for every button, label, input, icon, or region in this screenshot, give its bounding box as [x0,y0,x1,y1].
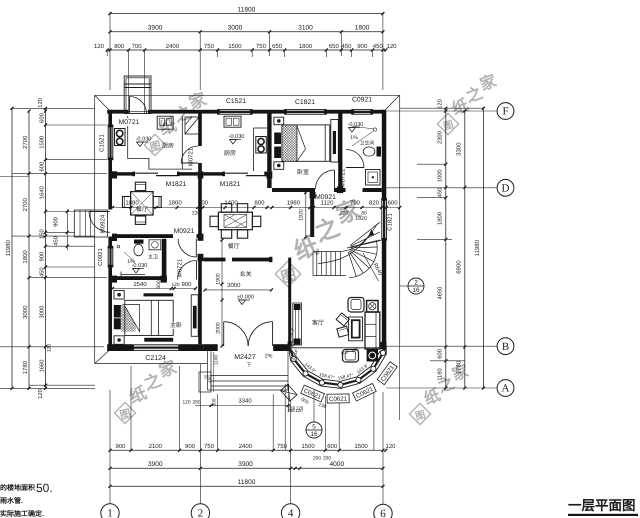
svg-text:1500: 1500 [228,43,242,50]
svg-text:900: 900 [53,217,60,227]
door M0921 bedroom [334,170,336,189]
svg-text:200: 200 [313,456,321,462]
svg-text:16: 16 [412,287,420,294]
svg-text:2300: 2300 [437,131,444,144]
svg-text:3000: 3000 [227,282,241,289]
vertical dim 1920 left of stair [305,193,307,238]
svg-text:4650: 4650 [437,287,444,300]
svg-text:1500: 1500 [301,443,315,450]
svg-text:2700: 2700 [22,135,29,149]
svg-text:1780: 1780 [22,360,29,374]
svg-text:6900: 6900 [456,260,463,274]
svg-text:D: D [502,183,510,195]
inner wall kitchen2-bedroom [267,114,271,172]
svg-text:650: 650 [329,43,340,50]
bathroom toilet [363,147,375,156]
inner wall entry top [203,258,225,262]
svg-text:800: 800 [254,200,265,207]
stair radius leader R640 [363,253,379,281]
porch vertical small dims [213,352,215,392]
section mark 5/16 [313,390,315,422]
svg-text:1660: 1660 [39,360,46,373]
room label master bedroom [172,322,179,329]
bedroom nightstand top [274,117,284,125]
window C0921 left [108,246,113,267]
svg-text:700: 700 [350,200,361,207]
svg-text:120: 120 [386,43,397,50]
stair walk line arrow [318,230,372,264]
svg-text:200: 200 [323,456,331,462]
label M0721 kitchen1 [119,118,140,126]
dining1 chairs [135,182,145,190]
spiral stair upper treads [351,240,380,247]
svg-text:客厅: 客厅 [312,319,324,327]
svg-text:1800: 1800 [355,25,370,32]
living room armchair 1 [336,313,349,326]
top dimension row total 11800 [110,13,383,15]
svg-text:300: 300 [212,398,218,406]
svg-text:1500: 1500 [354,443,368,450]
kitchen1 stove [115,129,126,146]
door M0721 kitchen1 top [129,97,131,114]
svg-text:主卧: 主卧 [170,321,182,329]
dining1 table [131,192,154,215]
svg-text:1400: 1400 [224,200,238,207]
svg-text:450: 450 [39,267,46,277]
bottom dimension row fine [110,449,383,451]
living room sofa main [365,312,380,349]
svg-text:餐厅: 餐厅 [228,242,240,250]
left wall segments [108,110,112,125]
svg-text:1800: 1800 [22,250,29,264]
inner wall master bath right [162,239,167,276]
svg-text:900: 900 [115,443,126,450]
inner wall kitchen divider x=200 [198,114,202,147]
svg-text:450: 450 [437,188,444,198]
svg-text:220: 220 [192,211,201,217]
svg-text:750: 750 [204,443,215,450]
internal dimension string y=207.5 [112,207,400,209]
svg-text:下: 下 [246,363,251,369]
kitchen1 counter [128,116,192,169]
svg-text:3000: 3000 [39,306,46,319]
bedroom nightstand bottom [274,162,284,170]
axis bubble F [497,103,514,120]
axis bubble B [497,338,514,355]
living room west wall [288,258,291,347]
svg-text:M1821: M1821 [220,181,241,188]
svg-text:C1821: C1821 [295,99,315,106]
spiral stair fan treads [348,252,356,277]
svg-text:900: 900 [39,252,46,262]
living room TV cabinet [293,303,302,345]
bottom wall master bedroom [107,344,132,351]
living room armchair 2 [337,326,349,337]
dining2 table [218,212,252,230]
left dimension column groups [28,111,30,388]
svg-text:16: 16 [310,431,318,438]
inner wall bedroom-bath bottom [272,188,315,192]
level mark bathroom [349,128,356,133]
bedroom wardrobe [331,120,339,163]
svg-text:C0921: C0921 [97,248,104,266]
svg-text:的楼地面积: 的楼地面积 [0,483,35,492]
door M2427 entry double [223,322,225,346]
svg-text:C2124: C2124 [145,355,166,362]
svg-text:2700: 2700 [22,197,29,211]
svg-text:1920: 1920 [355,216,367,222]
pier kitchen2-bedroom [267,171,273,178]
svg-text:2: 2 [414,279,418,286]
svg-text:900: 900 [357,43,368,50]
svg-text:280: 280 [288,406,296,411]
bay left X pier box [281,384,297,401]
svg-text:400: 400 [198,200,209,207]
svg-text:11980: 11980 [5,240,12,257]
living room coffee table [349,317,363,341]
level mark master bath [133,269,140,274]
svg-text:M2427: M2427 [234,354,256,361]
svg-text:3900: 3900 [148,25,163,32]
window C2124 bottom [132,345,181,351]
chimney flue [124,76,151,114]
dining2 chairs [221,204,231,213]
svg-text:600: 600 [327,443,338,450]
door jambs M1821 [132,172,135,177]
svg-text:实际施工确定.: 实际施工确定. [0,509,44,518]
svg-text:±0.000: ±0.000 [237,295,254,301]
svg-text:820: 820 [369,200,380,207]
svg-text:2%: 2% [265,354,273,360]
right wall segments [382,110,387,199]
svg-text:A: A [502,383,510,395]
spiral stair inner rail curve [341,224,378,252]
living room side table top [367,301,378,313]
svg-text:1920: 1920 [299,209,305,221]
window C1521 left [108,125,113,160]
axis bubble D [497,179,514,196]
axis row lines to bubbles [387,110,497,112]
svg-text:900: 900 [185,443,196,450]
living room armchair top [348,298,364,313]
svg-text:1780: 1780 [456,360,463,374]
svg-text:2540: 2540 [133,281,147,288]
watermark top-left [144,89,210,155]
window C0921 top [352,110,373,115]
svg-text:20: 20 [204,374,209,379]
svg-text:450: 450 [53,236,60,246]
top extension lines [109,14,111,91]
svg-text:F: F [502,106,508,118]
svg-text:120: 120 [437,99,444,109]
door M0721 corridor to master bedroom [196,261,198,280]
svg-text:-0.030: -0.030 [348,122,364,128]
svg-text:M1821: M1821 [166,181,187,188]
svg-text:1180: 1180 [437,368,444,380]
left extension lines [12,107,95,109]
bottom wall bay junction pier [381,342,387,350]
svg-text:4: 4 [288,508,294,518]
svg-text:卧室: 卧室 [297,168,309,176]
svg-text:800: 800 [114,43,125,50]
svg-text:120: 120 [182,400,190,406]
master bedroom headboard cabinets [114,305,121,318]
svg-text:1880: 1880 [125,200,139,207]
inner wall master bath top [112,234,173,238]
kitchen2 counter [253,128,255,171]
svg-text:700: 700 [132,43,143,50]
svg-text:M0721: M0721 [188,147,195,166]
master bath drain [117,245,120,248]
svg-text:120: 120 [94,43,105,50]
svg-text:750: 750 [256,43,267,50]
svg-text:1500: 1500 [39,136,46,149]
living room side table bottom [367,350,378,362]
porch dimension 3340 [195,405,291,407]
bedroom headboard cabinets [274,133,281,145]
living room bay chord line [291,347,384,349]
svg-text:2100: 2100 [149,443,163,450]
svg-text:C1821: C1821 [387,213,394,231]
svg-text:750: 750 [277,443,288,450]
svg-text:M0924: M0924 [100,214,107,233]
inner wall bedroom-bath divider [338,114,342,188]
svg-text:M0721: M0721 [119,119,140,126]
door M0921 master bath [195,239,197,257]
porch right extension lines [284,384,286,450]
svg-text:1800: 1800 [299,43,313,50]
svg-text:1980: 1980 [287,200,301,207]
svg-text:120: 120 [171,282,179,288]
axis bubble 1 [101,504,119,518]
right dimension column fine [445,108,447,388]
svg-text:C1521: C1521 [99,134,106,152]
bedroom bed foot [324,125,326,161]
svg-text:1900: 1900 [215,273,221,285]
svg-text:4000: 4000 [329,461,344,468]
watermark center [275,196,365,287]
svg-text:M0721: M0721 [177,258,184,277]
watermark bottom-left [114,357,180,423]
pier kitchen junction [198,171,204,178]
svg-text:B: B [502,341,509,353]
svg-text:11980: 11980 [474,239,481,256]
door M0721 bathroom [346,167,364,169]
bay window arc living room [289,346,387,388]
room label living room [314,319,321,326]
kitchen2 stove [256,137,266,154]
svg-text:450: 450 [341,43,352,50]
svg-text:2400: 2400 [239,443,253,450]
svg-text:厨房: 厨房 [224,149,236,157]
axis bubble 2 [191,504,209,518]
svg-text:C0621: C0621 [329,396,348,403]
svg-text:卫生间: 卫生间 [360,140,375,147]
svg-text:1000: 1000 [437,169,444,182]
inner wall master bath bottom [112,276,166,280]
bottom extension lines [109,390,111,504]
svg-text:5: 5 [312,423,316,430]
bathroom washbasin [366,170,381,186]
master bedroom nightstands [114,291,124,300]
svg-text:3000: 3000 [228,25,243,32]
svg-text:3100: 3100 [298,25,313,32]
svg-text:600: 600 [437,349,444,359]
master bedroom internal dims [113,288,196,290]
axis bubble A [497,380,514,397]
svg-text:2000: 2000 [215,322,221,334]
svg-text:280: 280 [192,400,200,406]
kitchen1 sink [157,116,173,129]
svg-text:11800: 11800 [238,479,256,486]
svg-text:1: 1 [107,508,113,518]
axis bubble 6 [374,504,392,518]
svg-text:650: 650 [272,43,283,50]
section mark 2/16 [400,285,408,287]
inner wall master bedroom right x=200 [198,177,202,235]
svg-text:6: 6 [380,508,386,518]
svg-text:1%: 1% [350,135,358,141]
top dimension row axes 3900 3000 3100 1800 [110,31,383,33]
door M0721 kitchen divider [181,162,198,164]
inner wall left of stair [310,193,314,238]
pier bedroom wall bottom [337,187,343,194]
inner wall kitchens bottom [112,172,135,175]
window C1521 top [218,110,253,115]
svg-text:餐厅: 餐厅 [136,205,148,213]
svg-text:3900: 3900 [148,461,163,468]
kitchen1 range hood [185,117,199,134]
svg-text:2: 2 [198,508,204,518]
svg-text:1100: 1100 [214,355,220,366]
svg-text:1800: 1800 [437,212,444,225]
window C1821 right [382,199,387,241]
eave outline [95,94,400,96]
level mark entry [239,300,246,305]
door M1821 kitchen2 sliding [225,172,248,174]
top wall segments [107,110,128,114]
left dimension column fine [45,108,47,388]
entry internal dims [205,289,272,291]
door M0924 left bump [74,210,107,237]
axis bubble 4 [281,504,299,518]
svg-text:2400: 2400 [166,43,180,50]
watermark bottom-right [409,362,471,425]
master bedroom wardrobe [191,295,198,337]
right extension lines [400,107,483,109]
svg-text:M0921: M0921 [174,228,195,235]
svg-text:玄关: 玄关 [240,270,252,278]
master bath toilet [134,244,143,256]
svg-text:C1521: C1521 [226,98,246,105]
level mark kitchen2 [230,140,237,145]
svg-text:1800: 1800 [168,200,182,207]
svg-text:-0.030: -0.030 [229,134,245,140]
left dimension column total 11980 [11,108,13,388]
watermark top-right [437,72,499,135]
bay window pier circles [291,356,296,361]
svg-text:600: 600 [39,162,46,172]
kitchen2 sink [224,116,241,127]
svg-text:50.: 50. [36,481,53,495]
room label dining1 [138,206,145,213]
svg-text:1%: 1% [127,259,135,265]
svg-text:M0921: M0921 [315,194,336,201]
spiral stair top step to wall [347,241,381,249]
svg-text:一层平面图: 一层平面图 [568,498,636,513]
master bedroom bed [125,300,173,335]
bottom dimension row axes [110,467,383,469]
svg-text:-0.030: -0.030 [136,137,152,143]
pier kitchens bottom left [112,171,117,178]
svg-text:1640: 1640 [39,186,46,199]
window C1821 top [285,110,327,115]
right dimension column total 11980 [482,108,484,388]
svg-text:主卫: 主卫 [148,254,158,261]
level mark kitchen1 [137,142,144,147]
svg-text:120: 120 [296,406,304,411]
svg-text:3340: 3340 [238,398,252,405]
bottom dimension row total 11800 [110,485,383,487]
svg-text:C0921: C0921 [352,97,372,104]
svg-text:3300: 3300 [456,142,463,156]
living room armchair bottom [343,350,359,363]
svg-text:150: 150 [39,229,46,239]
spiral stair outer arc [349,242,377,278]
eave corner diagonals [95,95,109,109]
svg-text:450: 450 [373,43,384,50]
svg-text:600: 600 [388,200,399,207]
bathroom shower drain [373,128,376,131]
svg-text:750: 750 [204,43,215,50]
right dimension column groups [464,111,466,388]
bottom wall entry segments [203,344,217,351]
svg-text:120: 120 [37,389,44,399]
svg-text:120: 120 [47,344,53,353]
porch steps [207,351,209,390]
svg-text:雨水管.: 雨水管. [0,496,23,505]
door M1821 kitchen1 sliding [135,172,158,174]
master bath washbasin [149,240,161,250]
svg-text:120: 120 [385,443,396,450]
bay window C0621 labels [301,385,325,402]
svg-text:3000: 3000 [22,305,29,319]
svg-text:11800: 11800 [237,6,255,13]
svg-text:3900: 3900 [238,461,253,468]
top dimension row fine [107,49,386,51]
svg-text:600: 600 [156,280,162,289]
svg-text:600: 600 [39,113,46,123]
left bump dimension line [66,209,68,250]
svg-text:厨房: 厨房 [162,142,174,150]
svg-text:220: 220 [340,211,349,217]
bedroom bed [282,125,330,161]
svg-text:900: 900 [181,281,192,288]
svg-text:120: 120 [37,98,44,108]
svg-text:M0721: M0721 [340,168,347,187]
spiral stair straight flight [312,252,314,276]
